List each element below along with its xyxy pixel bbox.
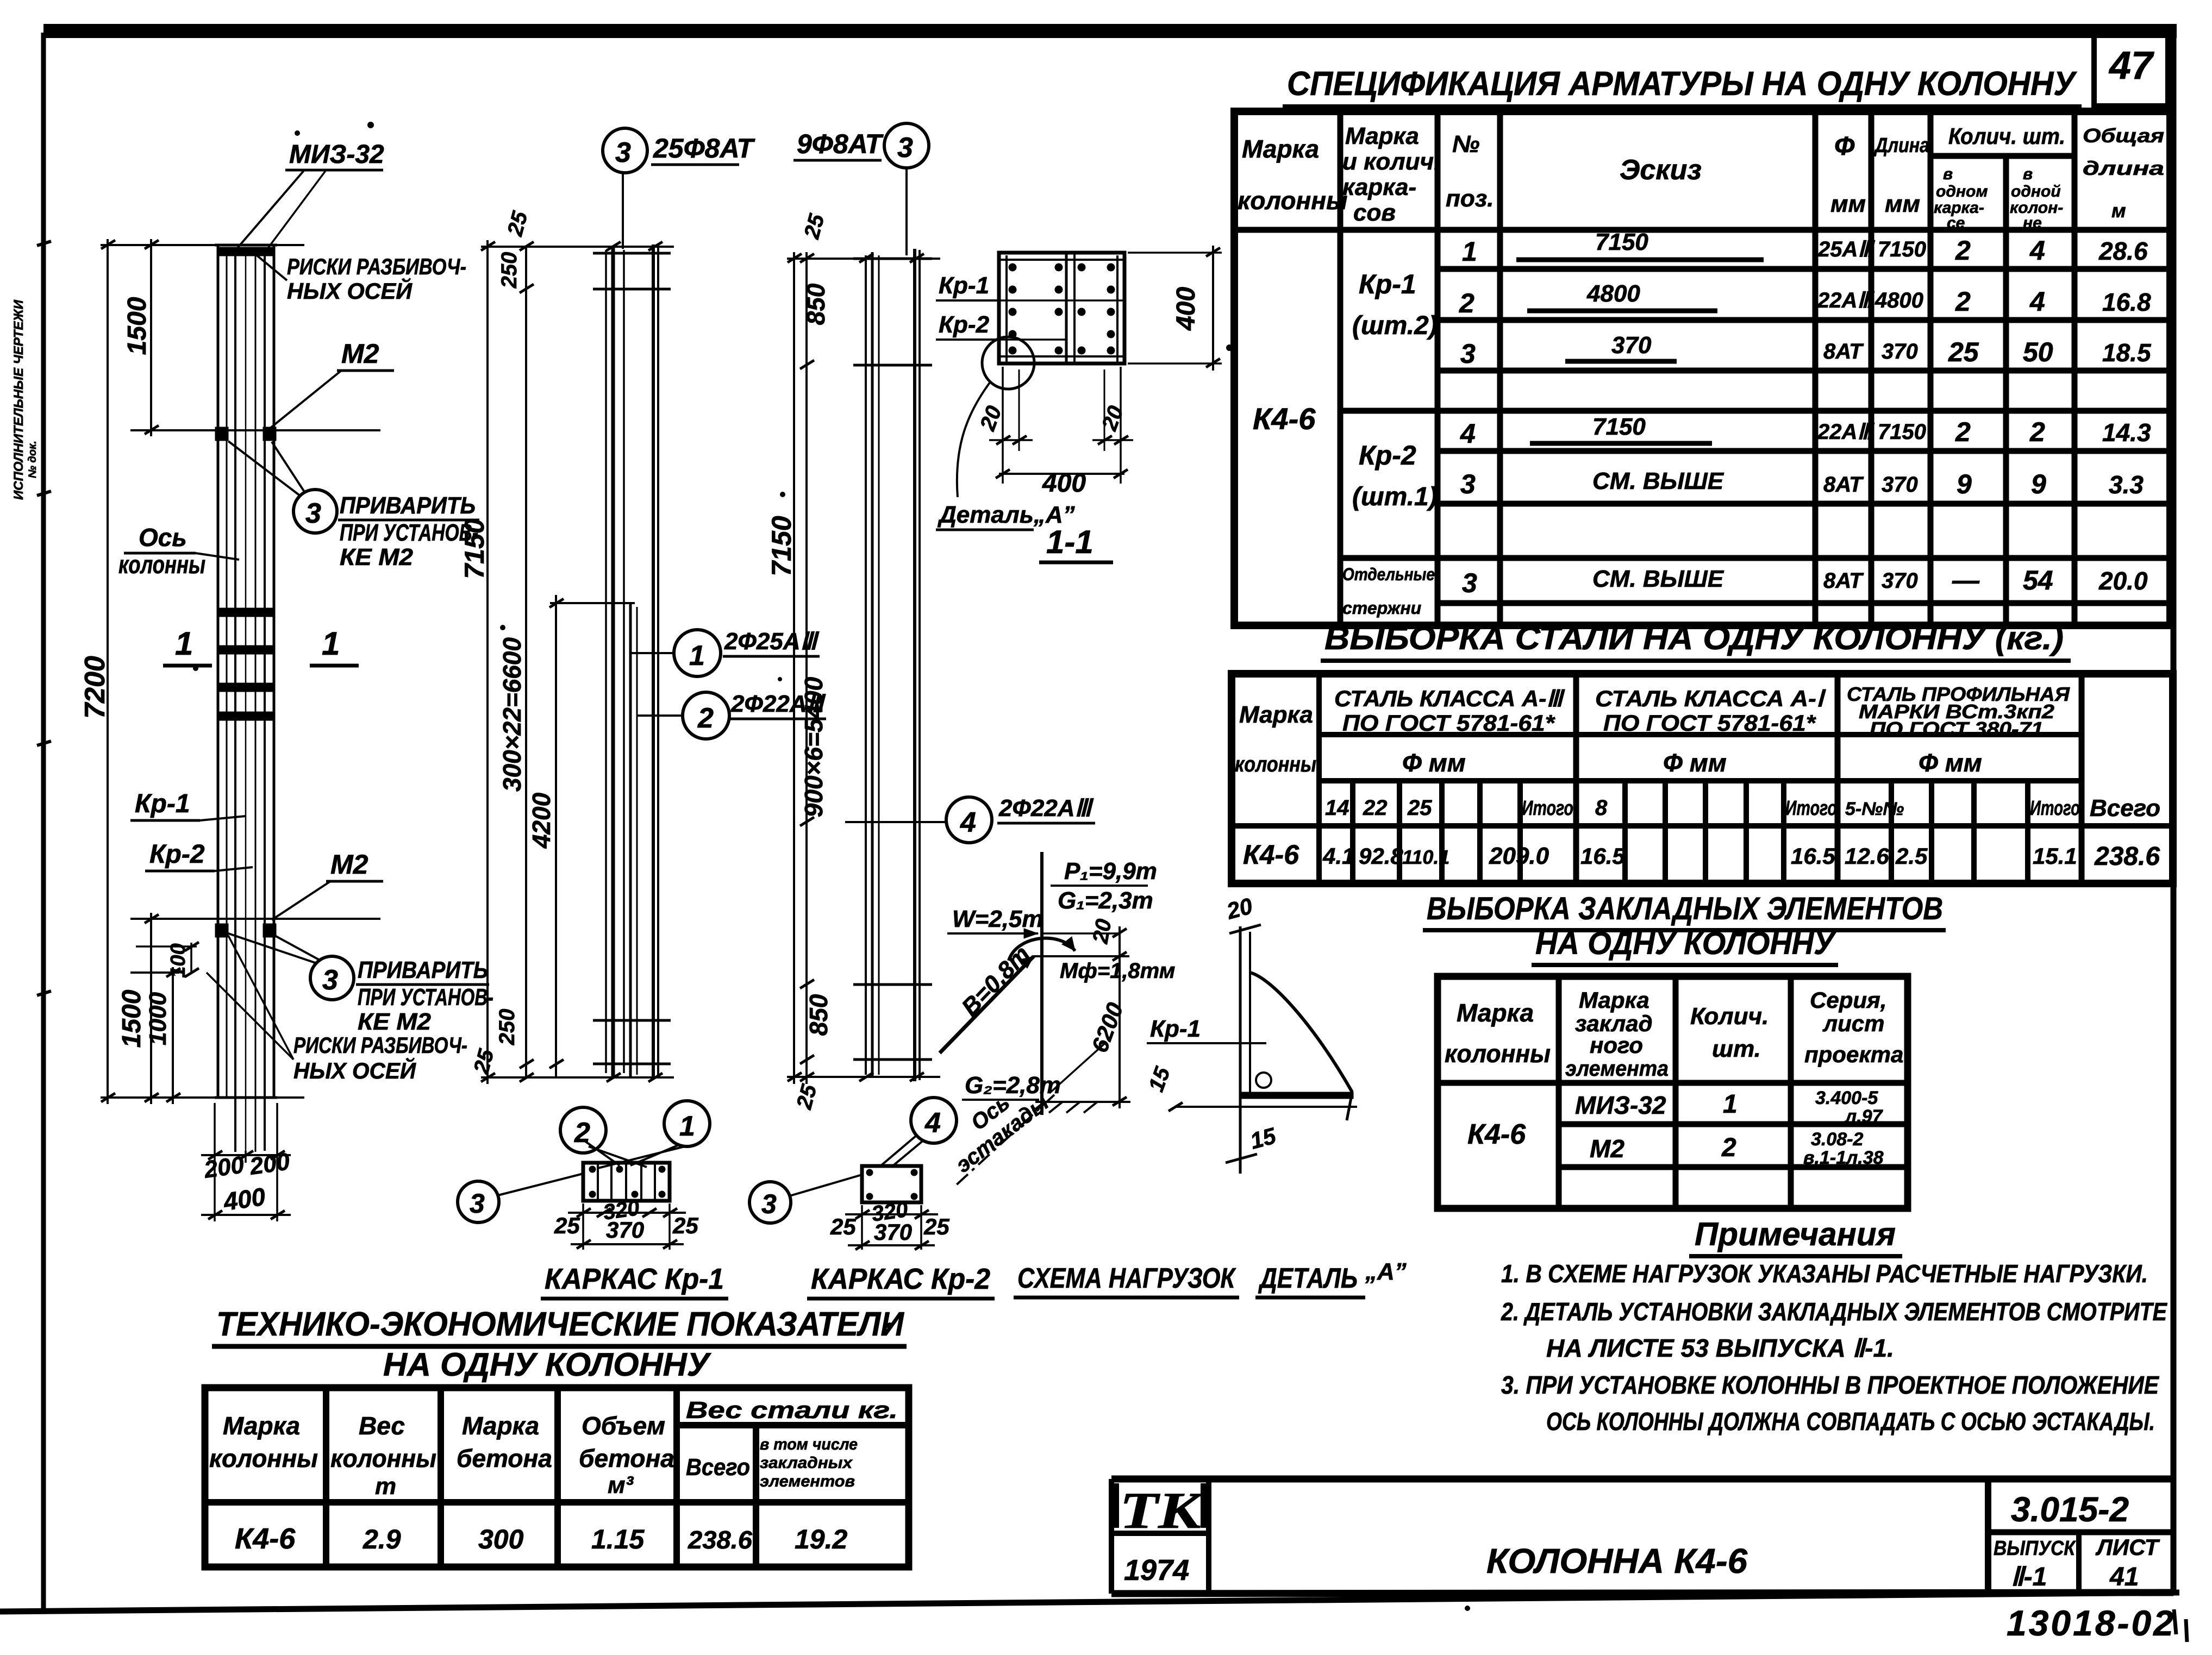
title: embedded elements table <box>1423 891 1946 965</box>
svg-text:карка-: карка- <box>1342 174 1416 200</box>
title: notes <box>1501 1216 2167 1435</box>
svg-text:колонны: колонны <box>118 550 205 579</box>
stirrup band 4 <box>218 712 273 720</box>
svg-text:м³: м³ <box>608 1472 634 1499</box>
dim extensions <box>787 258 940 260</box>
svg-text:ИСПОЛНИТЕЛЬНЫЕ ЧЕРТЕЖИ: ИСПОЛНИТЕЛЬНЫЕ ЧЕРТЕЖИ <box>11 299 26 500</box>
svg-text:сов: сов <box>1353 199 1396 226</box>
embedded elements table grid <box>1438 976 1908 1208</box>
svg-text:т: т <box>375 1473 396 1500</box>
svg-text:8: 8 <box>1595 796 1608 820</box>
svg-text:6200: 6200 <box>1086 999 1128 1056</box>
svg-text:НЫХ ОСЕЙ: НЫХ ОСЕЙ <box>287 277 413 304</box>
svg-text:1: 1 <box>175 625 193 662</box>
leader from callout 4 <box>891 1140 924 1167</box>
svg-text:G₁=2,3т: G₁=2,3т <box>1058 887 1153 914</box>
svg-text:К4-6: К4-6 <box>1253 402 1316 436</box>
svg-text:мм: мм <box>1830 191 1866 217</box>
vypusk / list cells <box>1994 1534 2160 1591</box>
bottom stirrup lines <box>853 983 932 986</box>
svg-text:20.0: 20.0 <box>2098 567 2148 595</box>
svg-text:шт.: шт. <box>1712 1036 1761 1062</box>
svg-text:400: 400 <box>1172 287 1201 331</box>
column axis vertical <box>1040 852 1043 1115</box>
svg-text:2: 2 <box>1955 235 1971 266</box>
svg-text:3.015-2: 3.015-2 <box>2011 1490 2129 1529</box>
svg-text:4.1: 4.1 <box>1322 843 1354 869</box>
svg-text:Марка: Марка <box>462 1412 539 1440</box>
right dim 6200 <box>1119 963 1121 1108</box>
svg-text:не: не <box>2023 214 2042 232</box>
svg-text:14: 14 <box>1325 796 1349 820</box>
svg-text:7150: 7150 <box>1878 237 1926 261</box>
svg-text:ВЫПУСК: ВЫПУСК <box>1994 1537 2076 1560</box>
Kr-1 cross-section detail <box>554 1140 698 1250</box>
svg-text:№: № <box>1452 131 1479 158</box>
svg-text:370: 370 <box>1882 569 1918 593</box>
svg-text:238.6: 238.6 <box>688 1526 752 1554</box>
svg-text:ТК: ТК <box>1120 1482 1204 1539</box>
svg-text:в: в <box>2023 165 2033 183</box>
svg-text:Кр-1: Кр-1 <box>1150 1015 1201 1042</box>
svg-text:СМ. ВЫШЕ: СМ. ВЫШЕ <box>1592 468 1724 494</box>
svg-text:ного: ного <box>1590 1032 1643 1058</box>
svg-text:(шт.2): (шт.2) <box>1352 311 1438 340</box>
svg-text:СПЕЦИФИКАЦИЯ АРМАТУРЫ НА ОД: СПЕЦИФИКАЦИЯ АРМАТУРЫ НА ОДНУ КОЛОННУ <box>1287 65 2077 103</box>
svg-text:М2: М2 <box>330 849 368 880</box>
svg-text:К4-6: К4-6 <box>235 1522 296 1555</box>
bottom stirrup lines <box>593 1019 671 1022</box>
svg-text:3: 3 <box>1460 469 1476 499</box>
svg-text:5-№№: 5-№№ <box>1845 799 1904 819</box>
svg-text:2.9: 2.9 <box>363 1524 401 1554</box>
svg-text:7150: 7150 <box>1595 229 1648 255</box>
svg-text:К4-6: К4-6 <box>1467 1119 1526 1150</box>
label Kr-1 <box>130 789 246 820</box>
main bars <box>605 250 607 1073</box>
svg-text:370: 370 <box>1882 473 1918 497</box>
svg-text:370: 370 <box>1611 332 1652 359</box>
svg-text:Ф мм: Ф мм <box>1919 749 1982 777</box>
load scheme <box>940 852 1175 1187</box>
svg-text:ВЫБОРКА СТАЛИ НА ОДНУ КОЛО: ВЫБОРКА СТАЛИ НА ОДНУ КОЛОННУ (кг.) <box>1324 620 2064 656</box>
svg-text:25: 25 <box>1948 337 1979 367</box>
svg-text:25: 25 <box>554 1213 580 1238</box>
svg-text:РИСКИ РАЗБИВОЧ-: РИСКИ РАЗБИВОЧ- <box>293 1032 467 1058</box>
ticks <box>481 242 663 1082</box>
svg-text:колонны: колонны <box>1238 186 1347 215</box>
svg-text:15.1: 15.1 <box>2033 843 2077 869</box>
svg-text:15: 15 <box>1247 1123 1279 1154</box>
svg-text:14.3: 14.3 <box>2102 418 2151 447</box>
svg-text:в: в <box>1943 165 1953 183</box>
svg-text:Эскиз: Эскиз <box>1620 154 1702 186</box>
svg-text:25: 25 <box>792 1082 821 1112</box>
svg-text:7150: 7150 <box>766 516 797 576</box>
left border tick marks <box>37 241 51 995</box>
svg-text:ПРИВАРИТЬ: ПРИВАРИТЬ <box>358 957 488 983</box>
svg-text:3.400-5: 3.400-5 <box>1815 1088 1878 1108</box>
svg-text:Колич.: Колич. <box>1690 1003 1769 1030</box>
label DETAL A (bottom titles row) <box>1255 1258 1407 1297</box>
frame Kr-1 elevation <box>459 209 674 1084</box>
svg-text:2: 2 <box>1955 417 1971 447</box>
svg-text:1: 1 <box>322 625 340 662</box>
label SCHEMA NAGRUZOK <box>1014 1263 1239 1297</box>
leaders from callouts 1,2 to section <box>583 1140 620 1165</box>
callout circles below Kr-1 <box>458 1101 710 1223</box>
svg-text:КАРКАС Кр-2: КАРКАС Кр-2 <box>811 1263 990 1295</box>
svg-text:Кр-1: Кр-1 <box>939 272 989 299</box>
svg-text:Вес стали кг.: Вес стали кг. <box>686 1397 898 1424</box>
top dimension extension line <box>101 244 304 246</box>
embed plate M2 top level right <box>263 427 276 441</box>
svg-text:8АТ: 8АТ <box>1823 340 1864 363</box>
section cut mark 1 (left) <box>163 625 212 666</box>
svg-text:25АⅢ: 25АⅢ <box>1817 237 1875 261</box>
callout circle 3 bottom with weld note <box>228 933 493 1035</box>
svg-text:КЕ М2: КЕ М2 <box>340 544 414 571</box>
svg-text:16.5: 16.5 <box>1791 843 1835 869</box>
svg-text:50: 50 <box>2023 337 2053 367</box>
svg-text:G₂=2,8т: G₂=2,8т <box>965 1072 1061 1099</box>
svg-text:7200: 7200 <box>79 656 111 719</box>
tech-economic table text <box>209 1397 898 1555</box>
svg-text:Примечания: Примечания <box>1695 1216 1896 1252</box>
svg-text:22АⅢ: 22АⅢ <box>1817 420 1874 444</box>
svg-text:ОСЬ КОЛОННЫ ДОЛЖНА СОВПАДАТЬ: ОСЬ КОЛОННЫ ДОЛЖНА СОВПАДАТЬ С ОСЬЮ ЭСТА… <box>1546 1407 2155 1435</box>
svg-text:1: 1 <box>1723 1090 1738 1119</box>
svg-text:4200: 4200 <box>527 792 555 849</box>
svg-text:элемента: элемента <box>1565 1057 1669 1081</box>
leader to Detail A label <box>957 382 990 497</box>
dim line 7200 <box>107 239 109 1104</box>
stirrup band 2 <box>218 645 273 654</box>
svg-text:12.6: 12.6 <box>1845 843 1889 869</box>
svg-text:4800: 4800 <box>1874 289 1923 312</box>
svg-text:7150: 7150 <box>1592 413 1646 440</box>
detail A drawing (right) <box>1144 893 1357 1174</box>
svg-text:поз.: поз. <box>1446 185 1494 212</box>
svg-text:КАРКАС Кр-1: КАРКАС Кр-1 <box>545 1263 724 1295</box>
callout circle 3 top with weld note <box>228 441 479 571</box>
svg-text:20: 20 <box>976 403 1007 434</box>
svg-text:Марка: Марка <box>1239 701 1313 728</box>
svg-text:2: 2 <box>574 1117 590 1149</box>
svg-text:Марка: Марка <box>1579 987 1649 1013</box>
svg-text:НА ОДНУ КОЛОННУ: НА ОДНУ КОЛОННУ <box>1535 926 1836 961</box>
svg-text:25: 25 <box>830 1214 856 1239</box>
svg-text:3: 3 <box>322 964 338 996</box>
svg-text:8АТ: 8АТ <box>1823 473 1864 497</box>
label KARKAS Kr-2 <box>807 1263 995 1299</box>
svg-text:25: 25 <box>923 1214 949 1239</box>
svg-text:25: 25 <box>672 1213 698 1238</box>
dim line 1000 bottom <box>172 967 174 1104</box>
svg-text:3: 3 <box>470 1188 485 1219</box>
svg-text:Длина: Длина <box>1873 134 1929 157</box>
label KARKAS Kr-1 <box>541 1263 728 1299</box>
top dim extension <box>481 246 674 248</box>
top tick and 20 label <box>1229 925 1261 933</box>
label riski top <box>255 254 466 304</box>
svg-text:Отдельные: Отдельные <box>1342 565 1435 584</box>
svg-text:Колич. шт.: Колич. шт. <box>1948 123 2065 149</box>
svg-text:НЫХ ОСЕЙ: НЫХ ОСЕЙ <box>293 1057 416 1083</box>
svg-text:25: 25 <box>1407 796 1432 820</box>
label Kr-2 <box>145 840 253 871</box>
svg-text:1.15: 1.15 <box>591 1524 645 1554</box>
dim line 850/5400 <box>805 252 808 1084</box>
svg-text:НА ОДНУ КОЛОННУ: НА ОДНУ КОЛОННУ <box>383 1346 711 1383</box>
svg-text:300: 300 <box>478 1524 524 1554</box>
svg-text:Марка: Марка <box>1457 999 1534 1027</box>
svg-text:1500: 1500 <box>123 297 152 355</box>
svg-text:4: 4 <box>2029 286 2045 317</box>
bottom dim 400 <box>999 473 1124 475</box>
svg-text:„А”: „А” <box>1365 1258 1407 1285</box>
svg-text:Всего: Всего <box>686 1454 750 1481</box>
svg-text:В=0,8т: В=0,8т <box>957 941 1035 1021</box>
bottom dim extension <box>481 1076 674 1079</box>
top stirrup lines <box>593 252 671 255</box>
svg-text:370: 370 <box>606 1217 644 1243</box>
svg-text:КЕ М2: КЕ М2 <box>358 1008 432 1035</box>
bottom width dims 200 200 <box>214 1103 216 1221</box>
svg-text:проекта: проекта <box>1804 1042 1903 1067</box>
svg-text:ПО ГОСТ 5781-61*: ПО ГОСТ 5781-61* <box>1342 710 1555 736</box>
svg-text:9: 9 <box>1957 469 1972 499</box>
callout circle 1 (2F25AIII) <box>630 628 820 676</box>
ticks <box>788 254 924 1081</box>
embed plate M2 bottom level right <box>263 924 276 937</box>
svg-text:2: 2 <box>1721 1133 1736 1162</box>
svg-text:2: 2 <box>2029 417 2045 447</box>
specification table data <box>1253 229 2152 618</box>
svg-text:бетона: бетона <box>457 1444 552 1472</box>
svg-text:Кр-2: Кр-2 <box>1359 440 1416 471</box>
svg-text:20: 20 <box>1223 893 1255 924</box>
label axis of column <box>118 523 239 579</box>
svg-text:Ф: Ф <box>1834 132 1855 161</box>
svg-text:2: 2 <box>1955 286 1971 317</box>
svg-text:СМ. ВЫШЕ: СМ. ВЫШЕ <box>1592 566 1724 592</box>
title: specification table <box>1283 65 2082 106</box>
svg-text:Ⅱ-1: Ⅱ-1 <box>2011 1563 2047 1591</box>
svg-text:Ф мм: Ф мм <box>1663 749 1727 777</box>
svg-text:250: 250 <box>495 1009 519 1046</box>
svg-text:18.5: 18.5 <box>2102 338 2152 367</box>
svg-text:54: 54 <box>2023 565 2053 595</box>
svg-text:стержни: стержни <box>1342 598 1421 618</box>
svg-text:19.2: 19.2 <box>795 1524 848 1554</box>
svg-text:Марка: Марка <box>1242 135 1319 163</box>
svg-text:Кр-2: Кр-2 <box>939 311 990 338</box>
svg-text:колонны: колонны <box>209 1444 318 1472</box>
specification table grid <box>1234 111 2170 625</box>
svg-text:КОЛОННА К4-6: КОЛОННА К4-6 <box>1486 1541 1747 1581</box>
moment arc arrow <box>1009 938 1075 961</box>
svg-text:л.97: л.97 <box>1844 1106 1884 1127</box>
anchor vertical pair <box>1239 926 1242 1174</box>
svg-text:ПО ГОСТ 380-71: ПО ГОСТ 380-71 <box>1870 718 2044 740</box>
MIZ-32 plate at top <box>220 247 272 256</box>
svg-text:—: — <box>1952 565 1980 595</box>
sheet number box 47 <box>2094 34 2168 106</box>
svg-text:28.6: 28.6 <box>2098 237 2148 265</box>
label riski bottom <box>207 936 467 1083</box>
svg-text:ЛИСТ: ЛИСТ <box>2095 1534 2160 1560</box>
svg-text:7150: 7150 <box>459 518 490 579</box>
column outline <box>217 245 220 1098</box>
column top edge <box>215 244 277 247</box>
base line with end arrow <box>1176 1106 1357 1108</box>
column bottom edge <box>215 1096 277 1099</box>
svg-text:7150: 7150 <box>1878 420 1926 444</box>
svg-text:4: 4 <box>960 807 976 838</box>
dim ticks <box>101 240 199 1102</box>
level line at bottom M2 <box>130 918 380 920</box>
svg-text:300×22=6600: 300×22=6600 <box>498 637 526 792</box>
mid level line for 4200 dim <box>550 602 635 604</box>
svg-text:се: се <box>1947 214 1965 232</box>
bent bar curve <box>1250 973 1352 1092</box>
svg-text:№ док.: № док. <box>27 441 39 478</box>
svg-text:3: 3 <box>1462 568 1477 598</box>
bottom extension lines and 20 dims <box>1002 367 1004 484</box>
svg-text:3.08-2: 3.08-2 <box>1811 1129 1863 1150</box>
svg-text:МИЗ-32: МИЗ-32 <box>289 140 384 169</box>
dim line 1500s <box>150 239 152 436</box>
title: steel selection table <box>1321 620 2071 661</box>
svg-text:900×6=5400: 900×6=5400 <box>799 676 828 817</box>
svg-text:100: 100 <box>167 943 190 977</box>
svg-text:3. ПРИ УСТАНОВКЕ КОЛОННЫ В: 3. ПРИ УСТАНОВКЕ КОЛОННЫ В ПРОЕКТНОЕ ПОЛ… <box>1501 1371 2159 1399</box>
svg-text:850: 850 <box>802 283 830 325</box>
svg-text:370: 370 <box>874 1219 912 1245</box>
svg-text:400: 400 <box>221 1182 267 1216</box>
section cut mark 1 (right) <box>310 625 359 666</box>
svg-text:ДЕТАЛЬ: ДЕТАЛЬ <box>1258 1263 1358 1294</box>
svg-text:2Ф22АⅢ: 2Ф22АⅢ <box>998 795 1094 822</box>
dim line 7150 <box>486 240 489 1084</box>
svg-text:СХЕМА НАГРУЗОК: СХЕМА НАГРУЗОК <box>1017 1263 1236 1294</box>
svg-text:1: 1 <box>689 640 705 672</box>
svg-text:Марка: Марка <box>1345 123 1419 149</box>
svg-text:ПРИВАРИТЬ: ПРИВАРИТЬ <box>340 492 476 519</box>
svg-text:лист: лист <box>1822 1011 1885 1036</box>
svg-text:РИСКИ РАЗБИВОЧ-: РИСКИ РАЗБИВОЧ- <box>287 254 466 279</box>
lower vertical and 15 <box>1240 1141 1258 1165</box>
svg-text:3: 3 <box>897 132 913 164</box>
small circle <box>1256 1073 1271 1088</box>
svg-text:элементов: элементов <box>760 1472 855 1490</box>
bottom dimension extension line <box>101 1096 304 1099</box>
svg-text:850: 850 <box>804 994 833 1036</box>
plate horizontal <box>1242 1092 1353 1099</box>
svg-text:1000: 1000 <box>145 992 171 1045</box>
svg-text:одном: одном <box>1936 183 1988 200</box>
svg-text:3: 3 <box>305 498 321 529</box>
callout circle 4 (2F22AIII) <box>918 795 1095 843</box>
outer square <box>999 253 1124 363</box>
svg-text:4800: 4800 <box>1586 280 1640 307</box>
rebar dots <box>1009 264 1115 354</box>
svg-text:М2: М2 <box>1590 1134 1624 1163</box>
svg-text:бетона: бетона <box>579 1444 674 1472</box>
svg-text:Серия,: Серия, <box>1810 987 1886 1013</box>
svg-text:одной: одной <box>2011 183 2061 200</box>
svg-text:1500: 1500 <box>117 989 146 1048</box>
axis label rotated <box>954 1095 1054 1187</box>
svg-text:ПРИ УСТАНОВ-: ПРИ УСТАНОВ- <box>340 519 478 546</box>
detail circle on corner <box>982 337 1034 389</box>
label M2 top <box>270 338 394 428</box>
svg-text:К4-6: К4-6 <box>1243 839 1299 870</box>
svg-text:15: 15 <box>1144 1064 1175 1095</box>
frame Kr-2 elevation <box>766 211 940 1112</box>
svg-text:Ось: Ось <box>139 523 187 551</box>
svg-text:238.6: 238.6 <box>2094 842 2160 871</box>
svg-text:200: 200 <box>202 1151 246 1183</box>
position 1/2 bars partial <box>629 603 632 1077</box>
svg-text:370: 370 <box>1882 340 1918 363</box>
title block <box>1111 1479 2173 1594</box>
svg-text:1: 1 <box>679 1111 695 1142</box>
svg-text:Кр-2: Кр-2 <box>149 840 205 869</box>
svg-text:длина: длина <box>2083 157 2164 179</box>
svg-text:400: 400 <box>1042 469 1086 498</box>
svg-text:1. В СХЕМЕ НАГРУЗОК УКАЗАНЫ: 1. В СХЕМЕ НАГРУЗОК УКАЗАНЫ РАСЧЕТНЫЕ НА… <box>1501 1259 2148 1288</box>
svg-text:20: 20 <box>1088 917 1116 945</box>
embed plate M2 top level left <box>215 427 228 441</box>
svg-text:2.5: 2.5 <box>1895 843 1928 869</box>
callout circle 3 (stirrups Kr-1) <box>603 128 756 249</box>
20 dim right of top <box>1119 926 1121 963</box>
svg-text:Объем: Объем <box>582 1412 665 1440</box>
embed plate M2 bottom level left <box>215 924 228 937</box>
svg-text:3: 3 <box>1460 338 1476 369</box>
dim line 300x22=6600 <box>525 247 527 1077</box>
svg-text:Марка: Марка <box>223 1412 300 1440</box>
svg-text:Вес: Вес <box>359 1412 405 1440</box>
svg-text:МИЗ-32: МИЗ-32 <box>1575 1091 1666 1119</box>
svg-text:м: м <box>2111 199 2126 222</box>
level line at top M2 <box>130 429 380 431</box>
svg-text:W=2,5т: W=2,5т <box>952 906 1043 932</box>
svg-text:колонны: колонны <box>1445 1039 1551 1068</box>
svg-text:13018-02: 13018-02 <box>2007 1603 2176 1643</box>
svg-text:1: 1 <box>1462 236 1477 267</box>
svg-text:ПРИ УСТАНОВ-: ПРИ УСТАНОВ- <box>358 984 493 1011</box>
svg-text:9: 9 <box>2031 469 2046 499</box>
svg-text:Ф мм: Ф мм <box>1402 749 1466 777</box>
svg-text:и колич.: и колич. <box>1342 148 1440 175</box>
Kr-2 cross-section detail <box>830 1140 949 1250</box>
svg-text:(шт.1): (шт.1) <box>1352 482 1438 511</box>
svg-text:ТЕХНИКО-ЭКОНОМИЧЕСКИЕ ПОКАЗАТ: ТЕХНИКО-ЭКОНОМИЧЕСКИЕ ПОКАЗАТЕЛИ <box>216 1306 904 1343</box>
svg-text:в том числе: в том числе <box>760 1435 858 1453</box>
section 1-1 <box>936 246 1222 562</box>
svg-text:ВЫБОРКА ЗАКЛАДНЫХ ЭЛЕМЕНТОВ: ВЫБОРКА ЗАКЛАДНЫХ ЭЛЕМЕНТОВ <box>1427 891 1943 926</box>
svg-text:Mф=1,8тм: Mф=1,8тм <box>1060 959 1175 983</box>
svg-text:в.1-1л.38: в.1-1л.38 <box>1803 1148 1884 1168</box>
svg-text:2: 2 <box>697 703 714 734</box>
svg-text:47: 47 <box>2108 44 2154 87</box>
svg-text:110.1: 110.1 <box>1402 846 1449 868</box>
dim line 4200 <box>555 603 557 1077</box>
svg-text:250: 250 <box>497 252 521 289</box>
